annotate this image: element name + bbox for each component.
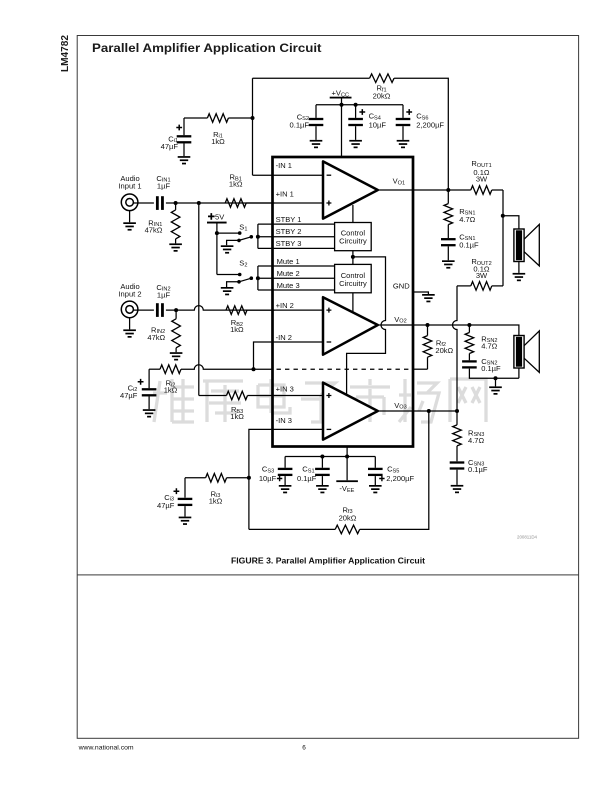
snubber RSN3 4.7ohm xyxy=(453,411,485,461)
node Ri1 junction xyxy=(251,116,255,120)
svg-text:1µF: 1µF xyxy=(157,181,171,190)
switch S2 xyxy=(217,259,260,284)
ground at Audio Input 1 xyxy=(123,211,136,231)
capacitor Ci2 47uF xyxy=(120,369,156,409)
connector J1 Audio Input 1 RCA jack xyxy=(121,194,138,211)
ground at Audio Input 2 xyxy=(123,318,136,338)
snubber RSN2 4.7ohm xyxy=(465,325,498,360)
ground at speaker 1 xyxy=(513,262,526,282)
node input1 junction dots xyxy=(174,201,178,205)
svg-text:1µF: 1µF xyxy=(157,291,171,300)
svg-text:47µF: 47µF xyxy=(161,142,179,151)
node bottom rail dots xyxy=(320,455,324,459)
svg-text:STBY 2: STBY 2 xyxy=(276,227,302,236)
svg-text:GND: GND xyxy=(393,281,410,290)
svg-text:20kΩ: 20kΩ xyxy=(339,513,357,522)
wire input1 to +IN3 vertical with hops xyxy=(198,203,200,396)
svg-text:LM4782: LM4782 xyxy=(60,35,71,72)
snubber RSN1 4.7ohm xyxy=(444,190,476,238)
ground at CSN1 xyxy=(442,260,455,262)
wire speaker2 bottom xyxy=(518,368,520,378)
wire input1 jack to CIN1 xyxy=(133,202,154,204)
switch S1 xyxy=(217,222,260,242)
node Rf2 at VO2 xyxy=(426,323,430,327)
svg-text:Mute 2: Mute 2 xyxy=(277,269,300,278)
svg-text:www.national.com: www.national.com xyxy=(78,744,134,751)
svg-text:2,200µF: 2,200µF xyxy=(386,474,414,483)
resistor RB3 1k xyxy=(199,391,325,421)
svg-text:5V: 5V xyxy=(215,212,224,221)
svg-text:3W: 3W xyxy=(476,175,488,184)
wire -IN2 into IC xyxy=(254,342,326,369)
svg-text:-IN 2: -IN 2 xyxy=(276,333,292,342)
svg-text:4.7Ω: 4.7Ω xyxy=(459,215,475,224)
wire -IN1 feedback vertical xyxy=(252,78,254,175)
ground at S2 xyxy=(221,282,239,296)
resistor RIN1 47k xyxy=(145,203,180,243)
power +VCC supply xyxy=(330,88,352,157)
capacitor CIN2 1uF xyxy=(156,283,171,317)
svg-text:1kΩ: 1kΩ xyxy=(211,137,225,146)
svg-text:-IN 1: -IN 1 xyxy=(276,161,292,170)
wire +IN1 into IC xyxy=(246,202,325,204)
ground at RIN2 xyxy=(170,352,183,354)
capacitor CS5 2200uF xyxy=(368,457,415,486)
svg-text:1kΩ: 1kΩ xyxy=(209,496,223,505)
capacitor Ci3 47uF xyxy=(157,478,192,517)
pin labels Mute xyxy=(277,257,300,290)
node VO1 junction xyxy=(446,188,450,192)
wire ROUT2 to VO3 with hop over VO2 xyxy=(453,286,458,411)
wire ROUT1/ROUT2 join vertical xyxy=(502,190,504,286)
svg-text:Parallel Amplifier Application: Parallel Amplifier Application Circuit xyxy=(92,41,322,55)
op-amp U1A triangle xyxy=(323,161,378,218)
ground at RIN1 xyxy=(169,243,182,245)
node VO2 snubber tap xyxy=(467,323,471,327)
wire to speaker1 xyxy=(503,216,519,229)
control circuitry box 1 xyxy=(335,223,372,251)
wire VO2 output xyxy=(378,325,519,336)
capacitor CS3 10uF xyxy=(259,457,293,486)
capacitor Ci1 47uF xyxy=(161,118,192,156)
pin labels amp3 xyxy=(276,384,294,425)
speaker 2 xyxy=(514,331,539,373)
svg-text:0.1µF: 0.1µF xyxy=(459,241,479,250)
resistor ROUT1 0.1ohm 3W xyxy=(471,159,503,194)
svg-text:STBY 3: STBY 3 xyxy=(276,239,302,248)
wire +IN2 into IC xyxy=(247,309,325,311)
wire control box2 to amp2 xyxy=(352,293,354,312)
wire dashed Rf2 return through IC xyxy=(254,368,428,370)
pin labels amp1 xyxy=(276,161,294,198)
connector J2 Audio Input 2 RCA jack xyxy=(121,301,138,318)
svg-text:200811D4: 200811D4 xyxy=(517,535,537,540)
capacitor CS1 0.1uF xyxy=(297,457,330,486)
svg-text:4.7Ω: 4.7Ω xyxy=(481,341,497,350)
control circuitry box 2 xyxy=(335,264,372,292)
svg-text:47µF: 47µF xyxy=(157,501,175,510)
svg-text:Circuitry: Circuitry xyxy=(339,279,367,288)
wire -VEE pin and bottom rail xyxy=(285,447,375,457)
wire input2 node with hop over input1 vertical xyxy=(166,306,275,311)
capacitor CS4 10uF xyxy=(348,105,386,140)
svg-text:0.1µF: 0.1µF xyxy=(290,121,310,130)
resistor RB2 1k xyxy=(226,306,247,334)
wire input1 node xyxy=(166,202,275,204)
ground at CS6 xyxy=(397,140,410,142)
svg-text:+IN 3: +IN 3 xyxy=(276,384,294,393)
ground at CS4 xyxy=(349,140,362,142)
resistor RB1 1k xyxy=(225,173,246,208)
svg-text:10µF: 10µF xyxy=(259,474,277,483)
svg-text:3W: 3W xyxy=(476,271,488,280)
svg-text:0.1µF: 0.1µF xyxy=(468,465,488,474)
pin labels amp2 xyxy=(276,301,294,342)
svg-text:+IN 1: +IN 1 xyxy=(276,189,294,198)
node -IN2 junction xyxy=(252,367,256,371)
node Ri3 junction xyxy=(247,476,251,480)
svg-text:4.7Ω: 4.7Ω xyxy=(468,436,484,445)
node VCC bus dots xyxy=(340,103,344,107)
pin labels STBY xyxy=(276,215,302,248)
svg-text:STBY 1: STBY 1 xyxy=(276,215,302,224)
speaker 1 xyxy=(514,224,539,266)
svg-text:+IN 2: +IN 2 xyxy=(276,301,294,310)
svg-text:10µF: 10µF xyxy=(369,120,387,129)
resistor Rf2 20k xyxy=(423,325,453,369)
ground at Ci1 xyxy=(178,156,191,158)
wire GND pin xyxy=(413,292,428,294)
svg-text:Mute 1: Mute 1 xyxy=(277,257,300,266)
capacitor CSN2 0.1uF xyxy=(462,357,519,378)
power -VEE supply xyxy=(336,457,358,495)
node control junction xyxy=(351,255,355,259)
resistor Ri2 1k xyxy=(149,365,253,395)
ground at Ci3 xyxy=(179,517,192,519)
node +5V junction S1 xyxy=(215,231,219,235)
wire Mute bracket and pin lines xyxy=(258,266,335,290)
svg-text:1kΩ: 1kΩ xyxy=(230,325,244,334)
svg-text:6: 6 xyxy=(302,744,306,751)
resistor Rf3 20k with bottom feedback wire xyxy=(249,411,429,534)
resistor Ri1 1k xyxy=(184,114,253,146)
capacitor CS6 2200uF xyxy=(396,105,445,140)
capacitor CSN1 0.1uF xyxy=(441,233,479,261)
power +5V supply xyxy=(207,212,227,274)
wire VO1 output xyxy=(378,189,471,191)
svg-text:20kΩ: 20kΩ xyxy=(373,92,391,101)
wire VCC bus xyxy=(316,104,403,106)
ground at Ci2 xyxy=(143,409,156,411)
op-amp U1B triangle xyxy=(323,297,378,355)
node VO3 junctions xyxy=(427,409,431,413)
capacitor CS2 0.1uF xyxy=(290,105,324,140)
watermark Chinese characters xyxy=(153,379,486,422)
svg-text:2,200µF: 2,200µF xyxy=(416,120,444,129)
svg-text:1kΩ: 1kΩ xyxy=(164,386,178,395)
svg-text:0.1µF: 0.1µF xyxy=(297,474,317,483)
svg-text:-IN 3: -IN 3 xyxy=(276,416,292,425)
svg-text:47kΩ: 47kΩ xyxy=(145,226,163,235)
svg-text:1kΩ: 1kΩ xyxy=(229,180,243,189)
node speaker1 tap xyxy=(501,214,505,218)
svg-text:Input 1: Input 1 xyxy=(118,182,141,191)
ground at CS5 xyxy=(369,485,382,487)
node snubber2 ground tap xyxy=(494,376,498,380)
op-amp U1C triangle xyxy=(323,383,378,440)
node input2 junction dot xyxy=(174,308,178,312)
page border frame xyxy=(77,36,578,739)
ground at S1 xyxy=(221,240,239,253)
resistor RIN2 47k xyxy=(147,310,180,352)
wire STBY bracket and pin lines xyxy=(258,224,335,248)
svg-text:47µF: 47µF xyxy=(120,391,138,400)
ground at snubber2 xyxy=(489,378,502,395)
svg-text:0.1µF: 0.1µF xyxy=(481,364,501,373)
svg-text:Circuitry: Circuitry xyxy=(339,237,367,246)
ground at CS1 xyxy=(316,485,329,487)
svg-text:Mute 3: Mute 3 xyxy=(277,281,300,290)
ground at GND pin xyxy=(422,294,435,296)
ground at CS3 xyxy=(279,485,292,487)
ground at CSN3 xyxy=(451,485,464,487)
wire VO3 output xyxy=(378,410,457,412)
resistor Ri3 1k xyxy=(185,474,249,506)
capacitor CSN3 0.1uF xyxy=(450,458,488,485)
separator rule xyxy=(77,574,578,575)
wire amp1 to control box xyxy=(352,205,354,223)
resistor ROUT2 0.1ohm 3W xyxy=(457,257,503,290)
IC LM4782 outline xyxy=(273,157,414,447)
svg-text:20kΩ: 20kΩ xyxy=(435,346,453,355)
wire -IN3 into IC and down to Rf3 node xyxy=(249,429,325,529)
svg-text:1kΩ: 1kΩ xyxy=(230,412,244,421)
wire control to amp3 with hop over VO2 xyxy=(347,257,386,394)
wire -IN1 into IC xyxy=(253,174,326,176)
ground at CS2 xyxy=(310,140,323,142)
resistor Rf1 20k with top feedback wire xyxy=(253,74,449,190)
svg-text:FIGURE 3. Parallel Amplifier A: FIGURE 3. Parallel Amplifier Application… xyxy=(231,557,425,566)
wire between control boxes xyxy=(352,251,354,265)
svg-text:Input 2: Input 2 xyxy=(118,290,141,299)
wire input2 jack to CIN2 xyxy=(133,309,154,311)
capacitor CIN1 1uF xyxy=(156,174,171,210)
svg-text:47kΩ: 47kΩ xyxy=(147,333,165,342)
